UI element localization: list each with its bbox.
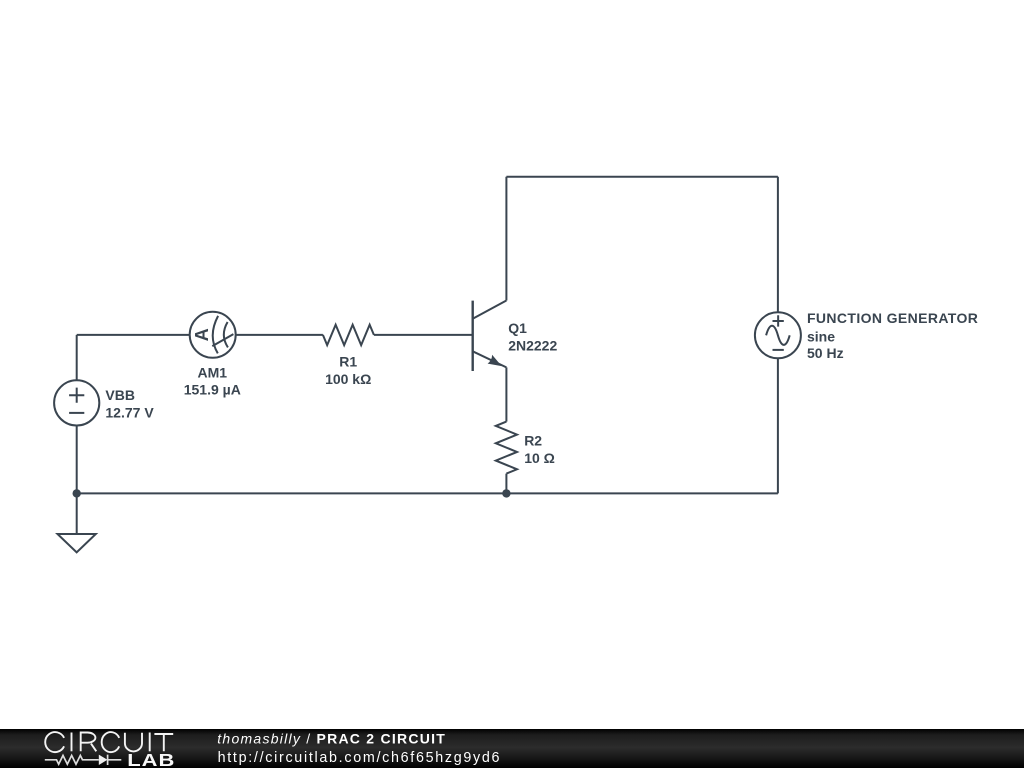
wire: collector up — [505, 177, 507, 301]
ammeter AM1 scale arc 2 — [224, 322, 228, 347]
logo CIRCUIT letter I1 — [71, 733, 73, 752]
transistor Q1 emitter arrow — [488, 355, 502, 366]
svg-text:VBB: VBB — [105, 387, 135, 403]
logo diode triangle — [99, 755, 108, 765]
voltage source VBB circle — [54, 380, 99, 425]
svg-text:sine: sine — [807, 328, 835, 344]
node junction at VBB/ground — [73, 489, 81, 497]
function generator sine wave — [766, 326, 790, 345]
wire: AM1 to R1 — [236, 334, 323, 336]
svg-text:thomasbilly / PRAC 2 CIRCUIT: thomasbilly / PRAC 2 CIRCUIT — [217, 731, 446, 747]
logo CIRCUIT letter I2 — [149, 733, 151, 752]
logo CIRCUIT letter U — [125, 733, 142, 752]
wire: function generator bottom lead — [777, 358, 779, 493]
svg-text:50 Hz: 50 Hz — [807, 345, 844, 361]
wire: top horizontal — [506, 176, 778, 178]
wire: VBB bottom lead to ground — [76, 426, 78, 535]
function generator circle — [755, 312, 801, 358]
svg-text:100 kΩ: 100 kΩ — [325, 371, 371, 387]
wire: VBB top lead — [76, 335, 78, 380]
logo CIRCUIT letter C2 — [102, 732, 120, 752]
wire: emitter to R2 — [505, 367, 507, 421]
node junction at R2/bottom rail — [502, 489, 510, 497]
resistor R1 — [323, 325, 374, 345]
svg-text:LAB: LAB — [127, 751, 175, 768]
ammeter AM1 circle — [190, 312, 236, 358]
ground symbol — [58, 534, 96, 552]
svg-text:151.9 µA: 151.9 µA — [184, 382, 241, 398]
wire: left rail horizontal from VBB corner to AM1 — [77, 334, 190, 336]
svg-text:12.77 V: 12.77 V — [105, 405, 154, 421]
svg-text:AM1: AM1 — [198, 364, 228, 380]
function generator plus sign — [773, 315, 784, 326]
wire: bottom horizontal rail — [77, 492, 778, 494]
transistor Q1 base bar — [472, 301, 474, 371]
voltage source VBB minus sign — [69, 412, 84, 414]
svg-text:10 Ω: 10 Ω — [524, 450, 555, 466]
svg-text:A: A — [192, 328, 212, 341]
wire: R2 to bottom rail — [505, 474, 507, 494]
footer bar — [0, 729, 1024, 768]
voltage source VBB plus sign — [69, 388, 84, 403]
logo resistor squiggle — [45, 755, 99, 764]
logo CIRCUIT letter T — [154, 734, 173, 751]
logo CIRCUIT letter R — [81, 733, 97, 752]
logo CIRCUIT letter C1 — [45, 732, 64, 752]
ammeter AM1 scale arc 1 — [213, 316, 218, 354]
wire: R1 to Q1 base — [374, 334, 473, 336]
transistor Q1 emitter stroke — [473, 351, 507, 367]
transistor Q1 collector stroke — [473, 301, 507, 319]
wire: function generator top lead — [777, 177, 779, 313]
svg-text:http://circuitlab.com/ch6f65hz: http://circuitlab.com/ch6f65hzg9yd6 — [218, 750, 502, 766]
svg-text:R2: R2 — [524, 433, 542, 449]
svg-text:R1: R1 — [339, 354, 357, 370]
logo diode cathode bar and wire — [108, 755, 122, 765]
svg-text:Q1: Q1 — [508, 320, 527, 336]
function generator minus sign — [773, 349, 784, 351]
ammeter AM1 needle — [212, 334, 233, 346]
svg-text:FUNCTION GENERATOR: FUNCTION GENERATOR — [807, 310, 978, 326]
svg-text:2N2222: 2N2222 — [508, 338, 557, 354]
resistor R2 — [496, 422, 517, 474]
